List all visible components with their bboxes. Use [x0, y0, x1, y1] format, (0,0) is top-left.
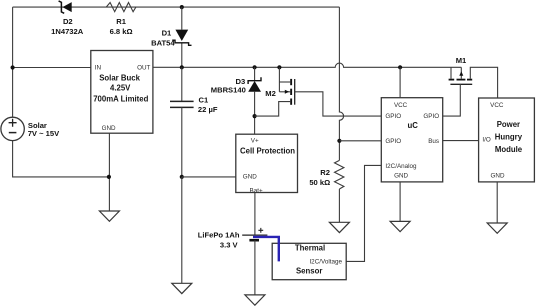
ground (solar buck) — [99, 211, 119, 221]
svg-text:I/O: I/O — [482, 137, 490, 144]
svg-text:R2: R2 — [320, 168, 330, 177]
svg-text:Hungry: Hungry — [495, 132, 523, 141]
node top rail / D1 junction — [180, 5, 184, 9]
svg-text:I2C/Analog: I2C/Analog — [385, 163, 417, 170]
node solar/in junction — [11, 65, 15, 69]
wire battery + to thermal sensor (blue) — [253, 237, 279, 262]
wire Power GND to ground — [496, 182, 498, 223]
svg-text:I2C/Voltage: I2C/Voltage — [309, 259, 342, 266]
svg-text:VCC: VCC — [490, 102, 504, 109]
wire Solar Buck GND down — [108, 133, 110, 211]
svg-text:OUT: OUT — [137, 64, 150, 71]
svg-text:7V ~ 15V: 7V ~ 15V — [28, 129, 60, 138]
svg-text:GPIO: GPIO — [423, 113, 439, 120]
svg-text:Solar Buck: Solar Buck — [99, 73, 140, 82]
svg-text:Power: Power — [497, 120, 520, 129]
wire top-left vertical (solar + to top rail) — [12, 7, 14, 117]
wire uC GND to ground — [399, 182, 401, 222]
svg-text:Module: Module — [495, 145, 523, 154]
node rail/D1/C1 — [180, 65, 184, 69]
wire GPIO2 to R2 tap — [339, 140, 381, 142]
ground (power module) — [487, 223, 507, 233]
svg-text:M2: M2 — [265, 89, 276, 98]
ground (main) — [172, 283, 192, 293]
node rail/uC VCC — [398, 65, 402, 69]
svg-text:C1: C1 — [199, 95, 209, 104]
wire uC VCC to rail — [399, 67, 401, 97]
svg-text:M1: M1 — [456, 56, 467, 65]
resistor R2 50k — [309, 160, 344, 189]
capacitor C1 22uF — [170, 67, 218, 177]
svg-text:GND: GND — [491, 172, 505, 179]
uC box — [381, 98, 442, 182]
Thermal Sensor box — [272, 243, 346, 279]
node rail/D3 — [253, 65, 257, 69]
svg-text:6.8 kΩ: 6.8 kΩ — [110, 27, 133, 36]
svg-text:1N4732A: 1N4732A — [51, 27, 84, 36]
svg-text:3.3 V: 3.3 V — [220, 241, 239, 250]
svg-text:R1: R1 — [116, 17, 126, 26]
wire Bus to Power I/O — [443, 140, 479, 142]
battery LiFePo 1Ah — [198, 193, 268, 295]
wire top rail — [13, 6, 340, 8]
svg-text:D1: D1 — [162, 29, 172, 38]
svg-text:GND: GND — [243, 173, 257, 180]
wire Cell Protection GND to gnd rail — [182, 176, 236, 178]
svg-text:Bus: Bus — [428, 138, 439, 145]
wire mid rail (hops over R2 vertical at x=339.4) — [153, 63, 461, 67]
svg-text:MBRS140: MBRS140 — [211, 86, 246, 95]
diode D1 BAT54 (pointing down) — [151, 7, 191, 67]
svg-text:V+: V+ — [251, 137, 259, 144]
wire solar minus down-left — [13, 141, 109, 177]
svg-text:GPIO: GPIO — [385, 138, 401, 145]
svg-text:D2: D2 — [63, 17, 73, 26]
transistor M1 (horizontal) — [449, 56, 498, 98]
svg-text:IN: IN — [95, 64, 102, 71]
wire R2 vertical from top rail (hops over GPIO wire at y=116.1) — [339, 7, 343, 160]
svg-text:Bat+: Bat+ — [250, 187, 263, 194]
svg-text:50 kΩ: 50 kΩ — [309, 178, 330, 187]
wire I2C/Analog to thermal sensor — [346, 165, 381, 261]
svg-text:uC: uC — [407, 121, 418, 130]
svg-text:22 µF: 22 µF — [198, 105, 218, 114]
svg-text:LiFePo 1Ah: LiFePo 1Ah — [198, 230, 240, 239]
svg-text:GPIO: GPIO — [385, 113, 401, 120]
svg-text:VCC: VCC — [394, 102, 408, 109]
node R2 / GPIO tap — [337, 139, 341, 143]
Solar Buck box U1 — [91, 51, 153, 134]
svg-text:BAT54: BAT54 — [151, 38, 175, 47]
ground (battery) — [245, 295, 265, 305]
svg-text:Cell Protection: Cell Protection — [240, 146, 295, 155]
Power Hungry Module box — [479, 98, 535, 182]
ground (R2) — [329, 222, 349, 232]
resistor R1 6.8k — [106, 3, 136, 37]
svg-text:GND: GND — [394, 173, 408, 180]
svg-text:Sensor: Sensor — [296, 267, 322, 276]
wire C1 bottom to ground — [181, 177, 183, 283]
diode D3 MBRS140 (pointing up) — [211, 67, 261, 134]
diode D2 zener 1N4732A — [51, 1, 84, 36]
node buck gnd / solar minus — [107, 175, 111, 179]
svg-text:4.25V: 4.25V — [110, 83, 131, 92]
wire M2 gate to uC GPIO — [295, 92, 382, 116]
node M2 source / D3 anode / V+ — [253, 114, 257, 118]
wire M1 gate to uC GPIO right — [443, 84, 461, 116]
svg-text:Thermal: Thermal — [295, 243, 325, 252]
svg-text:700mA Limited: 700mA Limited — [93, 95, 148, 104]
node C1 bottom / gnd rail — [180, 175, 184, 179]
Cell Protection box — [236, 134, 298, 194]
wire IN pin from left vertical to Solar Buck — [13, 67, 91, 69]
transistor M2 (PMOS, vertical) — [255, 67, 295, 116]
voltage source solar — [1, 117, 60, 140]
ground (uC) — [390, 221, 410, 231]
wire R2 to ground — [338, 189, 340, 222]
node rail/M2 drain — [277, 65, 281, 69]
svg-text:GND: GND — [102, 125, 116, 132]
